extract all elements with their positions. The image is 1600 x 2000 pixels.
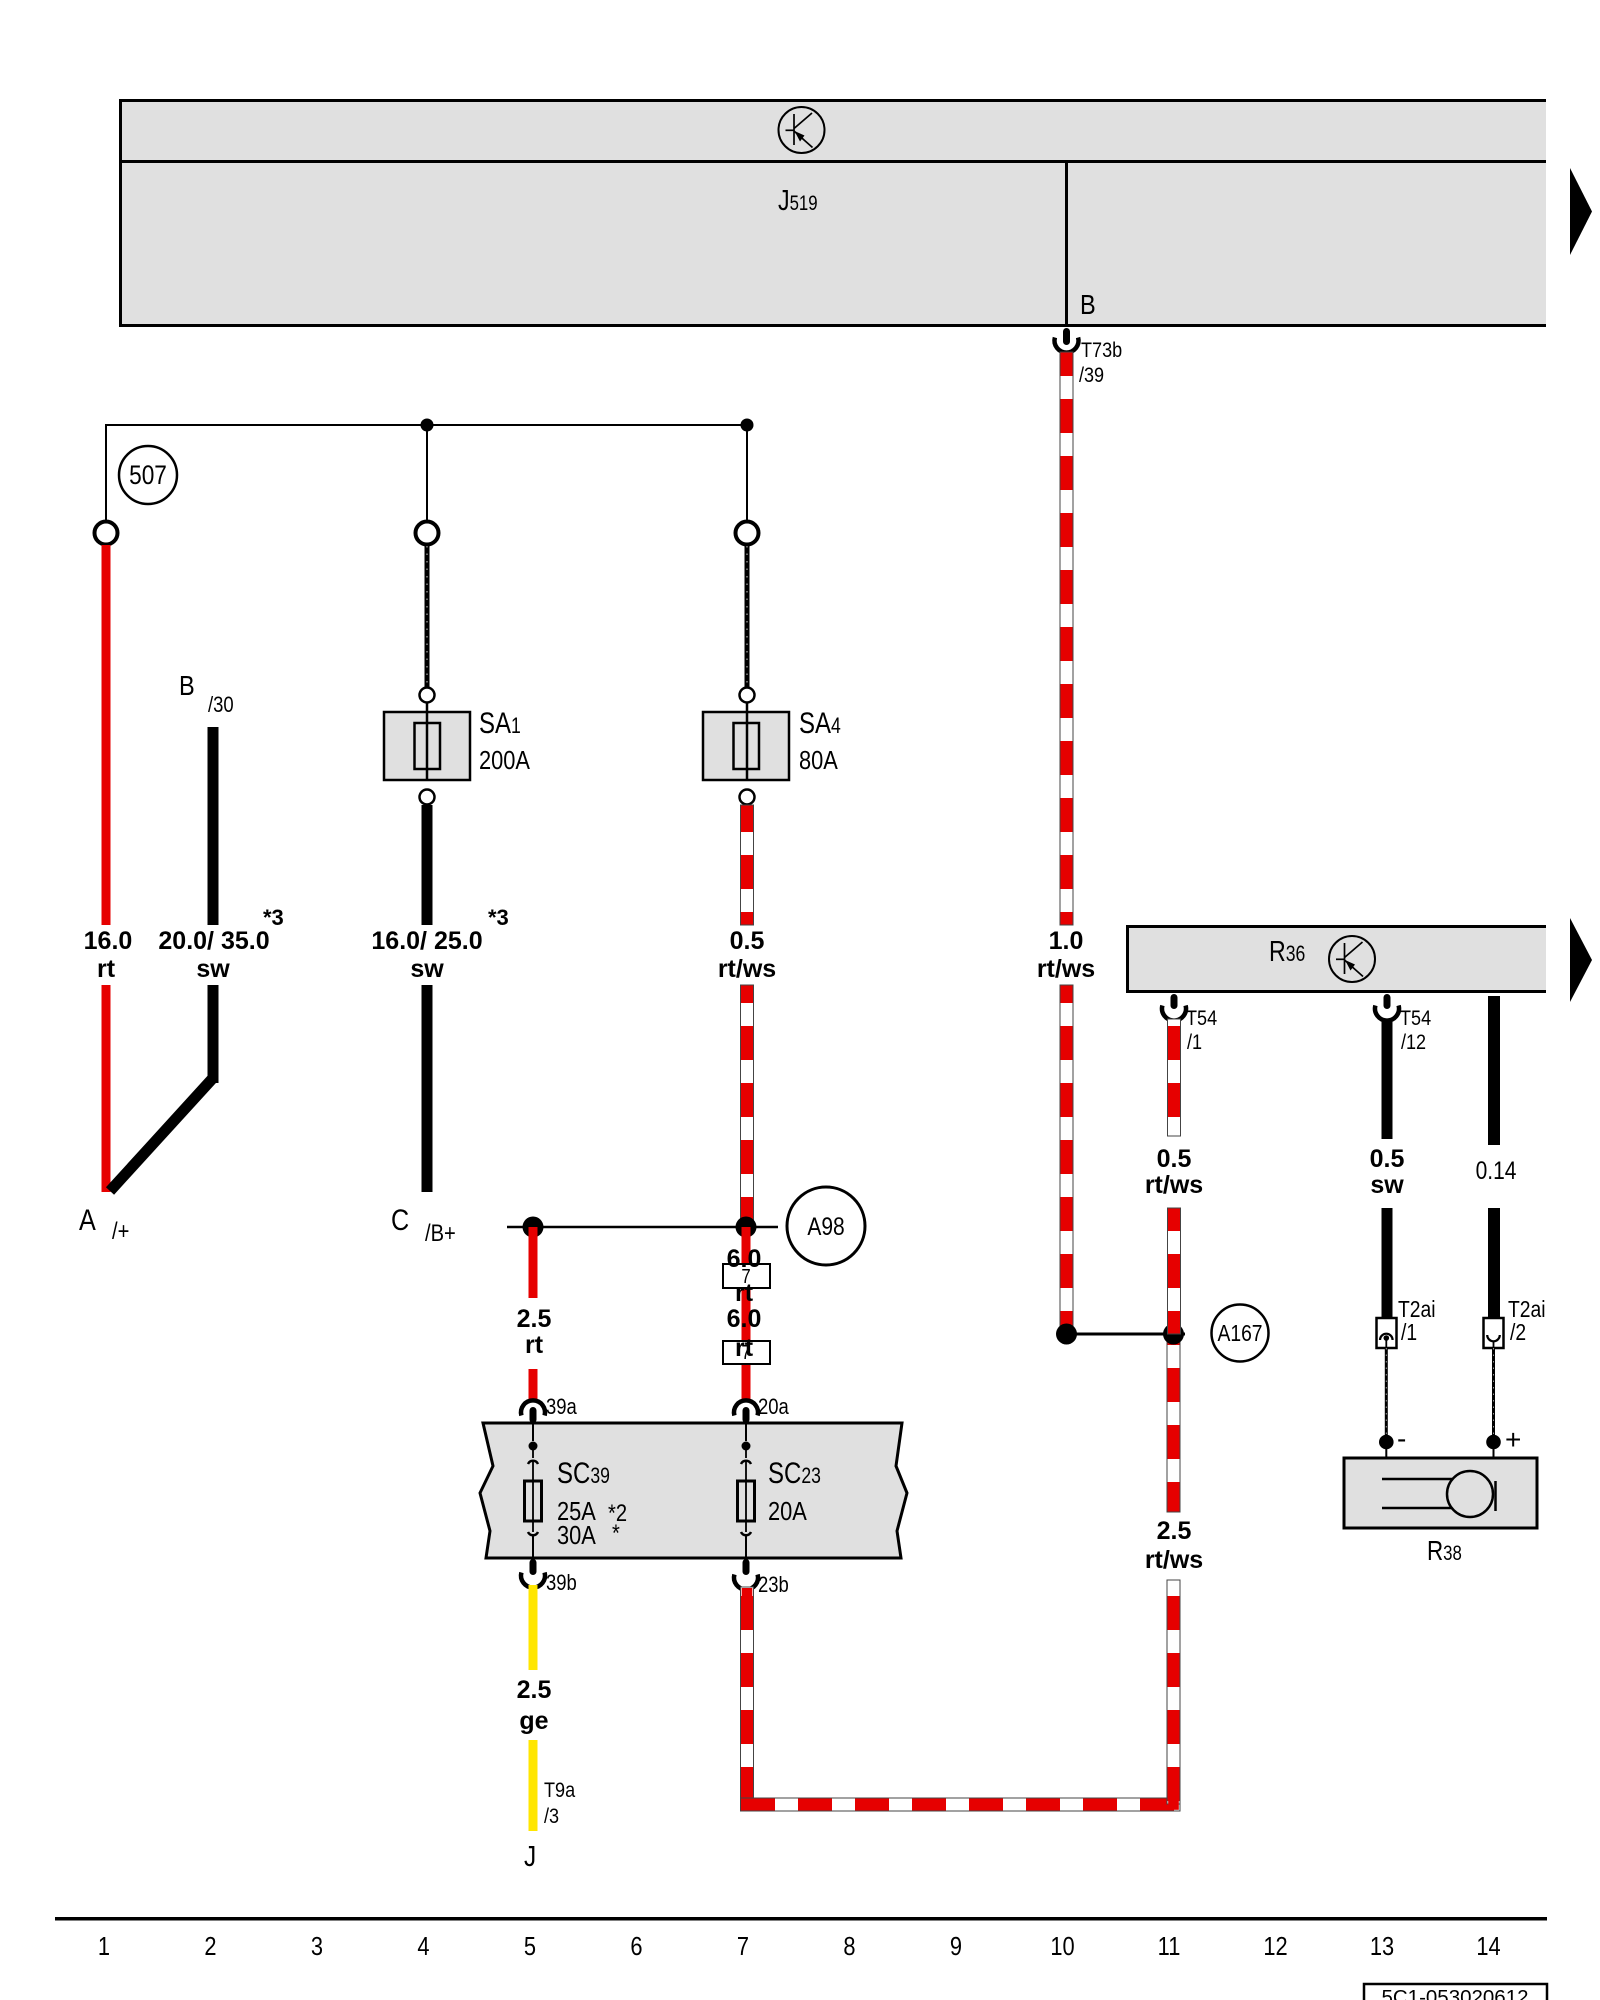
- svg-text:A98: A98: [807, 1212, 844, 1240]
- svg-text:C: C: [391, 1203, 409, 1237]
- horizontal wire at node A167: [1066, 1333, 1185, 1336]
- svg-text:rt/ws: rt/ws: [718, 955, 776, 983]
- inline connector rect lower: [723, 1341, 770, 1364]
- svg-text:5C1-053020612: 5C1-053020612: [1381, 1986, 1528, 2000]
- wire 1.0 rt/ws from T73b down (upper segment): [1060, 352, 1073, 925]
- SA4 lower small circle: [740, 790, 755, 805]
- svg-text:16.0/ 25.0: 16.0/ 25.0: [371, 927, 482, 955]
- svg-text:20.0/ 35.0: 20.0/ 35.0: [158, 927, 269, 955]
- semiconductor symbol in R36: [1329, 936, 1375, 982]
- wire 2.5 ge upper segment: [529, 1585, 538, 1670]
- wire loop bottom horizontal: [741, 1798, 1181, 1811]
- wire 2.5 rt upper segment: [529, 1227, 538, 1298]
- control unit R36 box: [1126, 925, 1546, 993]
- svg-text:sw: sw: [410, 955, 444, 983]
- svg-text:B: B: [1080, 290, 1096, 320]
- wire 2.5 rt lower segment: [529, 1369, 538, 1402]
- svg-text:rt: rt: [97, 955, 116, 983]
- svg-text:/12: /12: [1401, 1031, 1426, 1055]
- control unit J519 box: [119, 99, 1546, 327]
- svg-text:6: 6: [630, 1932, 642, 1961]
- svg-text:6.0: 6.0: [727, 1305, 762, 1333]
- junction dot plus: [1486, 1435, 1501, 1450]
- svg-text:30A: 30A: [557, 1521, 596, 1550]
- svg-text:200A: 200A: [479, 746, 530, 775]
- svg-text:T54: T54: [1186, 1007, 1217, 1031]
- svg-text:1: 1: [98, 1932, 110, 1961]
- wire 0.5 rt/ws from T54/1 lower: [1168, 1208, 1181, 1334]
- wire 0.5 sw lower: [1382, 1208, 1393, 1318]
- connector 23b: [743, 1559, 750, 1575]
- wire sw below SA1 lower segment: [422, 985, 433, 1192]
- svg-text:rt: rt: [735, 1279, 754, 1307]
- svg-text:ge: ge: [519, 1707, 548, 1735]
- horizontal wire at node A98: [507, 1226, 778, 1229]
- fuse SA1 box: [384, 712, 470, 780]
- svg-text:2.5: 2.5: [517, 1305, 552, 1333]
- svg-text:/39: /39: [1079, 364, 1104, 388]
- svg-text:*: *: [612, 1519, 620, 1546]
- fuse SA4 box: [703, 712, 789, 780]
- node circle 507: [119, 446, 177, 504]
- arrow continuation right R36: [1570, 918, 1592, 1002]
- svg-text:sw: sw: [196, 955, 230, 983]
- wire junction to SA4 terminal: [746, 425, 748, 522]
- svg-text:T73b: T73b: [1081, 339, 1122, 363]
- semiconductor symbol in J519: [779, 107, 825, 153]
- svg-text:13: 13: [1370, 1932, 1394, 1961]
- svg-text:5: 5: [524, 1932, 536, 1961]
- connector 20a: [734, 1400, 758, 1415]
- wire 23b down-left vertical of loop: [741, 1587, 754, 1811]
- svg-text:0.5: 0.5: [1370, 1145, 1405, 1173]
- svg-text:/1: /1: [1187, 1031, 1202, 1055]
- svg-text:80A: 80A: [799, 746, 838, 775]
- connector 39a: [521, 1400, 545, 1415]
- svg-text:12: 12: [1263, 1932, 1287, 1961]
- svg-text:2.5: 2.5: [1157, 1517, 1192, 1545]
- wire drop to terminal 507: [105, 424, 107, 522]
- wire loop right vertical lower segment: [1167, 1580, 1180, 1804]
- SA4 upper small circle: [740, 688, 755, 703]
- svg-text:16.0: 16.0: [84, 927, 133, 955]
- svg-text:507: 507: [129, 460, 167, 490]
- svg-text:39b: 39b: [546, 1572, 577, 1596]
- SA1 bolt connection: [425, 546, 430, 687]
- svg-text:T2ai: T2ai: [1508, 1298, 1546, 1323]
- svg-text:3: 3: [311, 1932, 323, 1961]
- fuse panel box (torn edges): [480, 1423, 907, 1558]
- wire 6.0 rt from A98 to 20a: [742, 1227, 751, 1402]
- SA1 top terminal circle: [416, 522, 439, 545]
- svg-text:23b: 23b: [758, 1574, 789, 1598]
- svg-text:2.5: 2.5: [517, 1676, 552, 1704]
- wire 16.0 rt upper segment: [102, 545, 111, 925]
- svg-text:7: 7: [737, 1932, 749, 1961]
- wire 16.0/25.0 sw below SA1 upper segment: [422, 805, 433, 925]
- inline connector rect upper: [723, 1264, 770, 1288]
- SA1 lower small circle: [420, 790, 435, 805]
- svg-text:0.14: 0.14: [1476, 1156, 1517, 1184]
- R38 inner symbol: [1382, 1478, 1452, 1481]
- svg-text:14: 14: [1476, 1932, 1500, 1961]
- svg-text:0.5: 0.5: [1157, 1145, 1192, 1173]
- svg-text:0.5: 0.5: [730, 927, 765, 955]
- SA4 fuse element rect: [734, 723, 760, 769]
- svg-text:B: B: [179, 671, 195, 701]
- wire junction to SA1 terminal: [426, 425, 428, 522]
- wire 0.5 rt/ws from T54/1 upper: [1168, 1019, 1181, 1136]
- node circle A98: [787, 1187, 865, 1265]
- SA1 upper small circle: [420, 688, 435, 703]
- svg-text:/B+: /B+: [425, 1219, 456, 1246]
- wire loop corner patches: [742, 1799, 753, 1810]
- junction dot right A98: [736, 1217, 757, 1238]
- svg-text:-: -: [1397, 1423, 1406, 1454]
- svg-text:A167: A167: [1217, 1322, 1262, 1347]
- svg-text:/1: /1: [1401, 1321, 1417, 1346]
- node circle A167: [1212, 1305, 1269, 1362]
- wire 16.0 rt lower segment: [102, 985, 111, 1192]
- svg-text:20a: 20a: [758, 1396, 789, 1420]
- wire 1.0 rt/ws lower segment to node A167: [1060, 985, 1073, 1334]
- wire loop right vertical upper segment to A167: [1167, 1334, 1180, 1512]
- wire sw lower segment with diagonal to A: [208, 985, 219, 1083]
- svg-text:SA4: SA4: [799, 705, 841, 739]
- arrow continuation right top: [1570, 168, 1592, 255]
- svg-text:T2ai: T2ai: [1398, 1298, 1436, 1323]
- drawing number box: [1364, 1984, 1547, 2000]
- wire 0.5 rt/ws below SA4 lower segment: [741, 985, 754, 1227]
- svg-text:/2: /2: [1510, 1321, 1526, 1346]
- svg-text:rt: rt: [735, 1334, 754, 1362]
- svg-text:J: J: [524, 1840, 536, 1872]
- svg-text:rt: rt: [525, 1331, 544, 1359]
- svg-text:6.0: 6.0: [727, 1245, 762, 1273]
- svg-text:39a: 39a: [546, 1396, 577, 1420]
- svg-text:R38: R38: [1427, 1536, 1462, 1567]
- svg-text:sw: sw: [1370, 1171, 1404, 1199]
- terminal circle left (30a post): [95, 522, 118, 545]
- connector 39b: [530, 1559, 537, 1575]
- svg-text:/+: /+: [112, 1217, 129, 1244]
- svg-text:SA1: SA1: [479, 705, 521, 739]
- svg-text:1.0: 1.0: [1049, 927, 1084, 955]
- junction dot left A167: [1056, 1324, 1077, 1345]
- junction dot left A98: [523, 1217, 544, 1238]
- wire T2ai/1 to R38: [1385, 1348, 1388, 1435]
- wire 0.5 sw from T54/12 upper: [1382, 1019, 1393, 1139]
- wire 0.14 from R36: [1488, 996, 1500, 1145]
- svg-text:4: 4: [417, 1932, 429, 1961]
- svg-text:*3: *3: [488, 905, 509, 930]
- wire 2.5 ge lower segment: [529, 1740, 538, 1831]
- connector T2ai/1: [1377, 1318, 1397, 1348]
- junction dot right A167: [1163, 1324, 1184, 1345]
- svg-text:rt/ws: rt/ws: [1037, 955, 1095, 983]
- SA1 fuse element rect: [415, 723, 441, 769]
- svg-text:A: A: [79, 1203, 96, 1237]
- svg-text:rt/ws: rt/ws: [1145, 1171, 1203, 1199]
- aerial amplifier R38 box: [1344, 1458, 1537, 1528]
- SA4 top terminal circle: [736, 522, 759, 545]
- SA4 bolt connection: [745, 546, 750, 687]
- svg-text:20A: 20A: [768, 1497, 807, 1526]
- bottom grid line: [55, 1917, 1547, 1921]
- svg-text:10: 10: [1050, 1932, 1074, 1961]
- svg-text:T9a: T9a: [544, 1779, 576, 1803]
- svg-text:2: 2: [204, 1932, 216, 1961]
- svg-text:T54: T54: [1400, 1007, 1431, 1031]
- junction dot minus: [1379, 1435, 1394, 1450]
- wire horizontal bus y425: [106, 424, 747, 426]
- svg-text:/30: /30: [208, 694, 234, 718]
- wire T2ai/2 to R38: [1492, 1348, 1495, 1435]
- fuse SC39: [532, 1423, 534, 1441]
- connector T73b/39 under J519: [1063, 328, 1070, 345]
- svg-text:9: 9: [950, 1932, 962, 1961]
- svg-text:8: 8: [843, 1932, 855, 1961]
- svg-text:+: +: [1505, 1424, 1521, 1455]
- junction dot at SA4 column: [741, 419, 754, 432]
- junction dot at SA1 column: [421, 419, 434, 432]
- wire 20.0/35.0 sw upper segment: [208, 727, 219, 925]
- wire inside J519 from divider to pin B: [1065, 161, 1068, 327]
- svg-text:rt/ws: rt/ws: [1145, 1546, 1203, 1574]
- svg-text:/3: /3: [544, 1805, 559, 1829]
- J519 internal divider: [119, 160, 1546, 163]
- fuse SC23: [745, 1423, 747, 1441]
- connector T54/1: [1171, 994, 1178, 1009]
- svg-text:11: 11: [1158, 1932, 1181, 1961]
- wire 0.14 lower: [1488, 1208, 1500, 1318]
- connector T54/12: [1384, 994, 1391, 1009]
- wire 0.5 rt/ws below SA4 upper segment: [741, 805, 754, 925]
- connector T2ai/2: [1484, 1318, 1504, 1348]
